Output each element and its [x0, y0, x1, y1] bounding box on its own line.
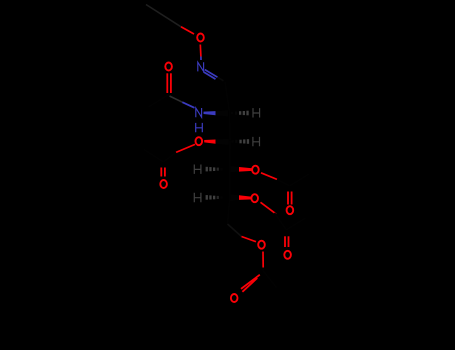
- wire: C4-H hashed wedge inner dashes (near-invisible): [220, 168, 222, 171]
- wire: C1=N double bond line 1 (carbon tip, faint): [218, 77, 224, 81]
- node O : C4 acetyl carbonyl oxygen label: [287, 206, 294, 214]
- wire: C6 acetyl C=O double bond line 1 (red): [241, 275, 260, 289]
- node O : C4 ester oxygen label: [252, 166, 259, 174]
- wire: amide C=O double bond line 2 (red): [170, 73, 172, 93]
- wire: C5 acetyl C=O double bond line 1 (red): [284, 236, 286, 247]
- node H : C2 hydrogen label: [253, 108, 260, 117]
- wire: C5 acetyl methyl bond (near-invisible): [286, 218, 306, 230]
- wire: C2-H hashed wedge inner dashes (near-invisible): [231, 112, 233, 115]
- node O : C5 acetyl carbonyl oxygen label: [284, 251, 291, 259]
- wire: C3-H hashed wedge inner dashes (near-invisible): [232, 140, 234, 143]
- wire: C3 ester O-C bond (red half): [176, 144, 195, 152]
- wire: C6-O bond (red half): [242, 237, 257, 242]
- wire: C2-C3 backbone bond (near-invisible): [229, 113, 232, 141]
- wire: C3 ester O-C bond (carbon half, near-invisible): [164, 152, 176, 161]
- wire: C5-H hashed wedge visible dashes: [206, 195, 208, 200]
- wire: C6-O bond (carbon half, faint): [228, 224, 242, 237]
- wire: amide C=O double bond line 1 (red): [166, 73, 168, 93]
- wire: C6 acetyl C=O double bond line 2 (red): [242, 278, 257, 292]
- wire: oxime methyl CH3-O bond (carbon half, faint): [146, 5, 181, 27]
- node H : C4 hydrogen label (left): [194, 165, 201, 174]
- wire: C3 acetyl C=O double bond line 2 (red): [164, 168, 166, 177]
- wire: C5 acetyl C=O double bond line 2 (red): [288, 236, 290, 247]
- wire: C6 acetyl methyl bond (near-invisible): [263, 271, 276, 288]
- wire: C5 ester O-C bond (carbon half, near-invisible): [275, 213, 287, 230]
- wire: C3 acetyl methyl bond (near-invisible): [144, 150, 164, 163]
- node O : C3 acetyl carbonyl oxygen label: [160, 180, 167, 188]
- wire: C4 ester O-C bond (red half): [261, 173, 277, 180]
- wire: C3-C4 backbone bond (near-invisible): [229, 141, 231, 169]
- wire: C5-C6 backbone bond (near-invisible): [228, 197, 230, 224]
- wire: C4-C5 backbone bond (near-invisible): [229, 169, 231, 197]
- wire: C3-O bold wedge (red half): [204, 140, 215, 144]
- wire: C1=N double bond line 2 (blue): [204, 72, 216, 79]
- wire: C3-H hashed wedge visible dashes: [239, 140, 241, 144]
- wire: C4 ester O-C bond (carbon half, near-invisible): [277, 179, 289, 185]
- wire: C4-H hashed wedge visible dashes: [206, 167, 208, 172]
- wire: C2-N bold wedge (carbon half, near-invisible): [216, 110, 229, 116]
- wire: C4 acetyl C=O double bond line 1 (red): [287, 192, 289, 205]
- node N : acetamido nitrogen label: [196, 108, 202, 117]
- wire: amide N-C bond (carbon half, faint): [170, 96, 183, 102]
- node O : C3 ester oxygen label: [196, 137, 203, 145]
- wire: amide N-C bond (blue half): [182, 102, 194, 108]
- wire: C5-H hashed wedge inner dashes (near-invisible): [220, 196, 222, 199]
- node H : C3 hydrogen label: [253, 137, 260, 146]
- wire: C4-O bold wedge (red half): [239, 167, 252, 172]
- node N : oxime nitrogen label: [198, 62, 204, 71]
- wire: O-N single bond (blue tip): [200, 57, 202, 61]
- wire: amide acetyl methyl bond (near-invisible): [149, 95, 169, 108]
- wire: C4 acetyl C=O double bond line 2 (red): [291, 192, 293, 205]
- wire: C1=N double bond line 1 (blue half): [205, 70, 218, 78]
- node O : C6 acetyl carbonyl oxygen label: [231, 294, 238, 302]
- node H : C5 hydrogen label (left): [194, 193, 201, 202]
- wire: C6 ester O-C bond carbon tip (near-invisible): [262, 268, 264, 271]
- wire: C4 acetyl methyl bond (near-invisible): [290, 174, 310, 186]
- wire: C3-O bold wedge (carbon half, near-invisible): [216, 139, 229, 145]
- wire: C3 acetyl C=O double bond line 1 (red): [160, 168, 162, 177]
- wire: C5 ester O-C bond (red half): [261, 202, 277, 214]
- wire: oxime methyl CH3-O bond (oxygen half, red): [181, 27, 194, 34]
- wire: C6 ester O-C bond (red, vertical): [262, 252, 264, 268]
- node H : acetamido N-H hydrogen label: [196, 123, 203, 132]
- node O : amide carbonyl oxygen label: [165, 63, 172, 71]
- node O : methoxy oxygen label: [197, 34, 204, 42]
- node O : C5 ester oxygen label: [251, 194, 258, 202]
- wire: C5-O bold wedge (red half): [239, 195, 252, 200]
- wire: C1-C2 backbone bond (near-invisible): [225, 82, 230, 113]
- wire: C2-N bold wedge (blue half): [204, 111, 216, 115]
- wire: O-N single bond (red half): [199, 45, 202, 57]
- wire: C4-O bold wedge (carbon half, near-invisible): [231, 166, 240, 172]
- node O : C6 ester oxygen label: [258, 241, 265, 249]
- wire: C2-H hashed wedge visible dashes: [239, 111, 241, 115]
- wire: C5-O bold wedge (carbon half, near-invisible): [231, 194, 240, 200]
